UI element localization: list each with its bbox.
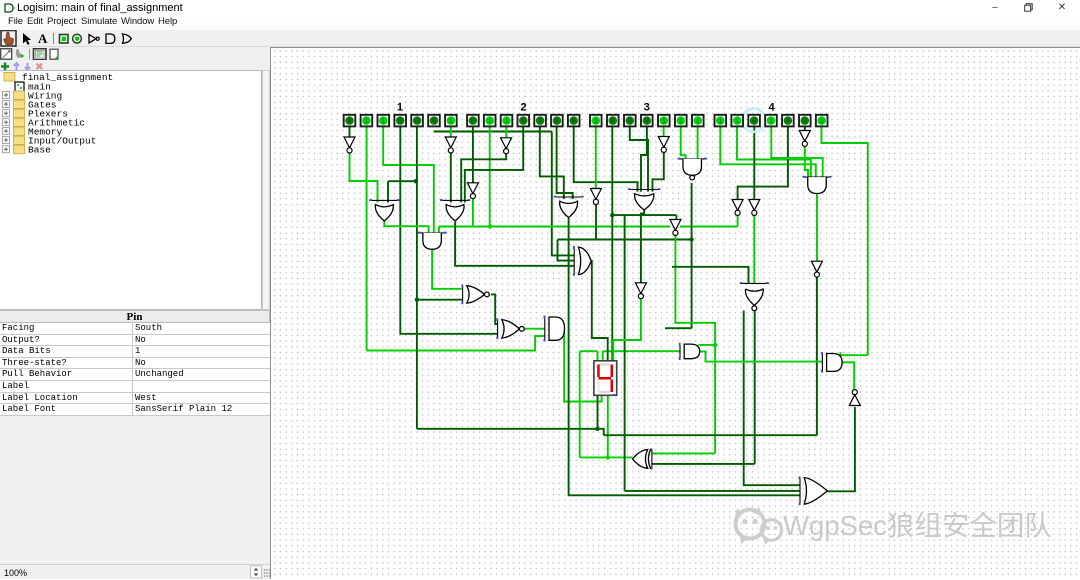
wire (491, 294, 498, 324)
svg-text:0: 0 (572, 118, 576, 126)
inverter U8 (732, 200, 743, 211)
wire (630, 127, 648, 192)
input pin P18 value 0 (641, 115, 653, 127)
wire (744, 311, 800, 486)
wire (349, 127, 351, 139)
inverter U3 (501, 138, 512, 149)
svg-text:1: 1 (735, 118, 739, 126)
input pin P27 value 0 (799, 115, 811, 127)
wire (465, 127, 523, 203)
wire (505, 127, 507, 139)
wire (596, 351, 598, 361)
input pin P12 value 0 (534, 115, 546, 127)
wire (388, 180, 416, 182)
wire (387, 181, 389, 202)
input pin P28 value 1 (816, 115, 828, 127)
wire (641, 127, 647, 192)
svg-text:3: 3 (644, 102, 650, 114)
wire (603, 350, 680, 352)
wire (455, 222, 574, 266)
wire (574, 127, 638, 192)
and-gate G14 (821, 352, 823, 372)
svg-text:0: 0 (645, 118, 649, 126)
node junction (414, 179, 418, 183)
svg-text:1: 1 (364, 118, 368, 126)
svg-text:1: 1 (820, 118, 824, 126)
input pin P19 value 1 (658, 115, 670, 127)
svg-text:Base: Base (28, 145, 51, 156)
node junction (415, 298, 419, 302)
7-segment display (594, 361, 617, 396)
input pin P16 value 0 (607, 115, 619, 127)
input pin P23 value 1 (731, 115, 743, 127)
or-gate G2 (440, 199, 470, 201)
wire (558, 240, 575, 261)
nand-gate G6 (678, 158, 707, 160)
wire (595, 205, 597, 240)
input pin P21 value 1 (692, 115, 704, 127)
svg-text:1: 1 (504, 118, 508, 126)
wire (450, 153, 452, 203)
input pin P15 value 1 (590, 115, 602, 127)
wire (681, 127, 686, 160)
node junction (606, 455, 610, 459)
wire (602, 351, 604, 361)
wire (564, 329, 602, 402)
wire (827, 407, 855, 491)
wire (840, 352, 868, 355)
input pin P8 value 0 (467, 115, 479, 127)
wire (417, 299, 463, 301)
xor-gate G16 (651, 449, 653, 470)
input pin P4 value 0 (394, 115, 406, 127)
wire (580, 350, 598, 352)
wire (579, 351, 581, 457)
input pin P2 value 1 (361, 115, 373, 127)
input pin P24 value 0 (748, 115, 760, 127)
wire (522, 328, 545, 330)
input pin P1 value 0 (344, 115, 356, 127)
wire (472, 127, 474, 184)
wire (771, 127, 822, 178)
or-gate G15 (799, 477, 801, 506)
node junction (713, 343, 717, 347)
wire (597, 396, 599, 429)
input pin P5 value 0 (411, 115, 423, 127)
attribute table (0, 310, 270, 416)
wire (641, 210, 644, 283)
wire (595, 127, 597, 189)
svg-text:1: 1 (662, 118, 666, 126)
main toolbar (0, 30, 1080, 47)
watermark (736, 510, 765, 539)
menu bar (0, 16, 1080, 30)
svg-text:0: 0 (555, 118, 559, 126)
or-gate G12 (573, 246, 575, 276)
wire (612, 214, 676, 216)
svg-text:0: 0 (611, 118, 615, 126)
and-gate G11 (544, 316, 546, 342)
wire (558, 239, 692, 241)
wire (604, 434, 817, 436)
wire (366, 127, 368, 351)
wire (591, 261, 608, 361)
inverter U13 (852, 390, 857, 395)
wire (439, 226, 670, 228)
wire (720, 127, 816, 178)
inverter U5 (590, 189, 601, 200)
nor-gate G10 (497, 319, 499, 340)
wire (738, 127, 788, 200)
wire (665, 327, 692, 329)
inverter U11 (811, 261, 822, 272)
input pin P26 value 0 (782, 115, 794, 127)
svg-text:0: 0 (628, 118, 632, 126)
inverter U1 (344, 137, 355, 148)
wire (473, 199, 490, 227)
wire (461, 154, 506, 203)
nor-gate G5 (740, 282, 769, 284)
input pin P22 value 1 (715, 115, 727, 127)
input pin P6 value 0 (428, 115, 440, 127)
wire (624, 215, 626, 491)
wire (699, 344, 716, 346)
svg-text:0: 0 (432, 118, 436, 126)
svg-text:1: 1 (397, 102, 403, 114)
inverter U2 (445, 137, 456, 148)
+/arrows toolbar (0, 59, 270, 70)
svg-text:0: 0 (538, 118, 542, 126)
wire (434, 131, 552, 133)
wire (540, 127, 564, 200)
svg-text:1: 1 (769, 118, 773, 126)
wire (697, 127, 699, 160)
wire (753, 215, 755, 283)
svg-text:WgpSec狼组安全团队: WgpSec狼组安全团队 (783, 510, 1052, 541)
wire (675, 215, 677, 219)
svg-text:1: 1 (718, 118, 722, 126)
wire (822, 127, 868, 356)
schematic canvas (270, 47, 1080, 579)
wire (805, 147, 808, 178)
wire (607, 396, 609, 458)
input pin P11 value 0 (518, 115, 530, 127)
wire (653, 153, 664, 192)
wire (557, 127, 573, 200)
svg-text:0: 0 (415, 118, 419, 126)
wire (699, 351, 822, 361)
node junction (488, 224, 492, 228)
input pin P9 value 1 (484, 115, 496, 127)
input pin P17 value 0 (624, 115, 636, 127)
wire (450, 127, 452, 139)
wire (737, 127, 811, 178)
svg-text:0: 0 (803, 118, 807, 126)
or-gate G1 (369, 199, 399, 201)
and-gate G13 (679, 343, 681, 360)
wire (350, 153, 378, 203)
wire (816, 277, 818, 435)
inverter U9 (749, 200, 760, 211)
svg-text:1: 1 (679, 118, 683, 126)
title bar (0, 0, 1080, 16)
inverter U10 (799, 131, 810, 142)
input pin P20 value 1 (675, 115, 687, 127)
svg-text:0: 0 (752, 118, 756, 126)
wire (416, 127, 418, 429)
wire (383, 127, 434, 234)
input pin P14 value 0 (568, 115, 580, 127)
wire (652, 452, 715, 454)
wire (816, 194, 818, 261)
wire (489, 127, 491, 227)
wire (737, 215, 739, 226)
halo highlight (742, 109, 765, 132)
node junction (595, 427, 599, 431)
svg-text:0: 0 (521, 118, 525, 126)
svg-text:0: 0 (347, 118, 351, 126)
svg-text:1: 1 (488, 118, 492, 126)
wire (417, 429, 604, 435)
svg-text:0: 0 (471, 118, 475, 126)
wire (840, 362, 854, 389)
svg-text:4: 4 (768, 102, 775, 114)
svg-text:A: A (38, 31, 48, 46)
wire (552, 132, 574, 256)
wire (569, 218, 800, 495)
wire (400, 127, 497, 334)
explorer tree (0, 70, 262, 310)
input pin P3 value 1 (378, 115, 390, 127)
svg-text:0: 0 (786, 118, 790, 126)
wire (754, 311, 756, 464)
wire (438, 227, 440, 234)
svg-text:1: 1 (696, 118, 700, 126)
and-gate G8 (803, 176, 832, 178)
wire (580, 456, 633, 458)
node junction (610, 213, 614, 217)
inverter U7 (670, 220, 681, 231)
zoom bar (0, 564, 270, 579)
inverter U4 (467, 183, 478, 194)
wire (680, 226, 738, 228)
wire (675, 235, 715, 345)
wire (613, 299, 641, 361)
svg-text:1: 1 (594, 118, 598, 126)
svg-text:1: 1 (381, 118, 385, 126)
wire (652, 463, 755, 465)
wire (804, 127, 806, 132)
input pin P25 value 1 (765, 115, 777, 127)
wire (611, 127, 613, 361)
input pin P13 value 0 (551, 115, 563, 127)
svg-text:1: 1 (449, 118, 453, 126)
inverter U6 (658, 137, 669, 148)
wire (367, 336, 545, 351)
and-gate G7 (418, 232, 447, 234)
inverter U12 (635, 283, 646, 294)
or-gate G3 (554, 196, 584, 198)
node junction (689, 237, 693, 241)
wire (625, 490, 800, 492)
svg-text:0: 0 (398, 118, 402, 126)
project toolbar (0, 47, 270, 59)
svg-text:2: 2 (520, 102, 526, 114)
or-gate G4 (628, 189, 660, 191)
wire (432, 250, 463, 289)
wire (663, 127, 665, 138)
wire (753, 127, 755, 200)
wire (384, 221, 428, 233)
input pin P10 value 1 (501, 115, 513, 127)
wire (691, 183, 693, 328)
wire (672, 267, 749, 284)
wire (714, 345, 716, 454)
input pin P7 value 1 (445, 115, 457, 127)
nor-gate G9 (462, 285, 464, 304)
